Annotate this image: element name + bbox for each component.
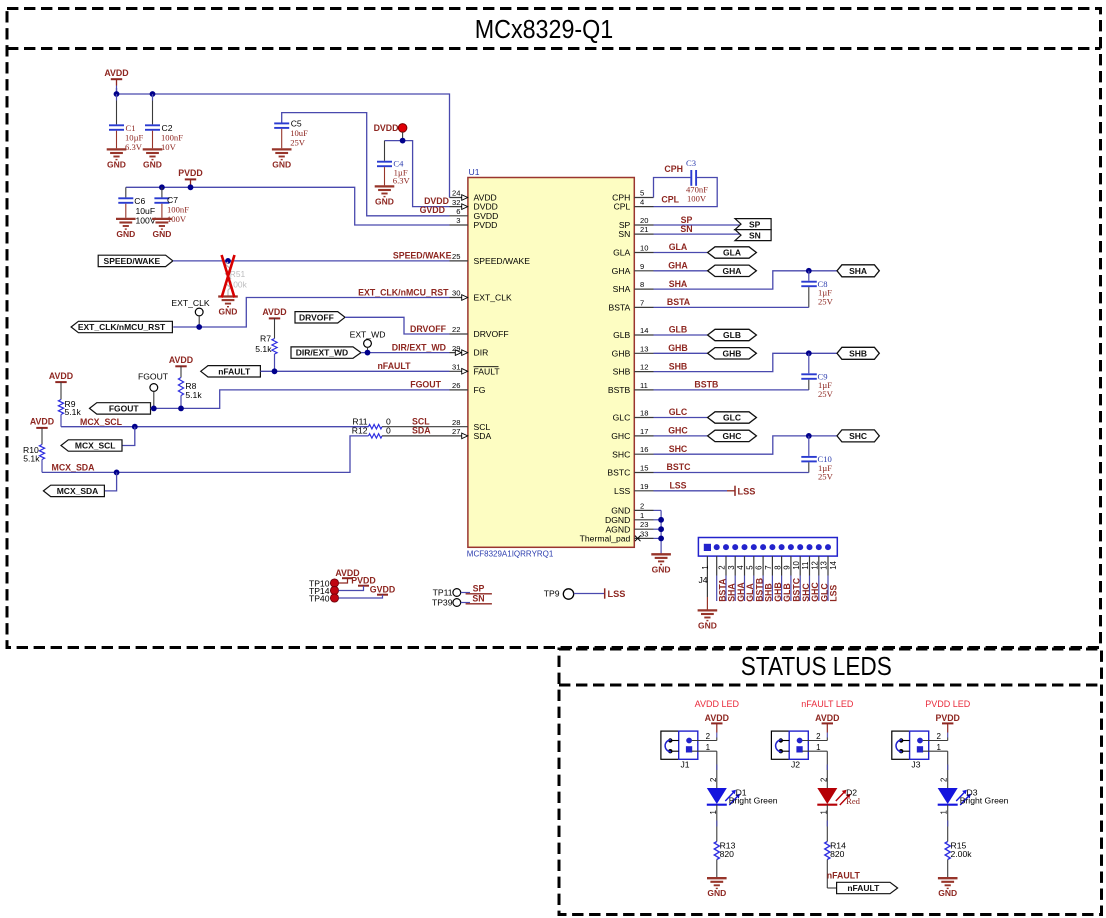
svg-text:17: 17 bbox=[640, 427, 648, 436]
svg-text:CPL: CPL bbox=[661, 194, 679, 204]
svg-text:16: 16 bbox=[640, 445, 648, 454]
svg-text:SHC: SHC bbox=[849, 431, 867, 441]
svg-text:MCx8329-Q1: MCx8329-Q1 bbox=[475, 16, 614, 44]
svg-text:1: 1 bbox=[701, 565, 710, 569]
svg-text:PVDD: PVDD bbox=[474, 220, 498, 230]
svg-text:GVDD: GVDD bbox=[370, 585, 395, 595]
svg-text:R51: R51 bbox=[230, 269, 246, 279]
U1 pin 13 GHB bbox=[634, 352, 653, 354]
svg-text:DRVOFF: DRVOFF bbox=[410, 324, 447, 334]
svg-text:7: 7 bbox=[764, 565, 773, 569]
ground (C1) bbox=[107, 149, 127, 159]
wire D2 cathode bbox=[826, 805, 828, 842]
svg-text:GHC: GHC bbox=[723, 431, 742, 441]
svg-text:GND: GND bbox=[272, 159, 291, 169]
svg-text:9: 9 bbox=[783, 565, 792, 569]
sheet border STATUS LEDS bbox=[559, 649, 1102, 915]
svg-text:0: 0 bbox=[386, 426, 391, 436]
op-amp-style IC U1 MCF8329A1IQRRYRQ1 bbox=[468, 178, 634, 548]
svg-text:nFAULT: nFAULT bbox=[218, 366, 251, 376]
svg-text:1: 1 bbox=[940, 810, 949, 814]
wire MCX_SCL / SCL bbox=[61, 426, 369, 428]
svg-text:GHB: GHB bbox=[668, 343, 688, 353]
resistor R12 0 bbox=[369, 434, 383, 438]
wire to nFAULT port bbox=[827, 887, 836, 889]
svg-text:100nF: 100nF bbox=[167, 204, 189, 214]
svg-text:DVDD: DVDD bbox=[374, 123, 399, 133]
svg-text:MCF8329A1IQRRYRQ1: MCF8329A1IQRRYRQ1 bbox=[467, 550, 554, 559]
svg-text:LSS: LSS bbox=[614, 486, 631, 496]
wire D3 cathode bbox=[947, 805, 949, 842]
capacitor C10 1uF 25V bbox=[808, 436, 810, 456]
wire GHC bbox=[654, 435, 708, 437]
U1 pin 9 GHA bbox=[634, 270, 653, 272]
wire to MCX_SDA port bbox=[104, 472, 116, 491]
resistor R10 5.1k bbox=[41, 428, 43, 445]
J4 pin 4 wire bbox=[734, 556, 736, 575]
svg-text:GHC: GHC bbox=[611, 431, 630, 441]
port SP bbox=[735, 219, 771, 230]
U1 pin 20 SP bbox=[634, 224, 653, 226]
svg-text:6: 6 bbox=[755, 565, 764, 569]
U1 pin 7 BSTA bbox=[634, 306, 653, 308]
wire BSTC bbox=[654, 472, 809, 474]
svg-text:9: 9 bbox=[640, 262, 644, 271]
svg-text:25V: 25V bbox=[290, 138, 306, 148]
svg-text:EXT_CLK: EXT_CLK bbox=[474, 293, 512, 303]
svg-text:Bright Green: Bright Green bbox=[960, 796, 1009, 806]
svg-text:22: 22 bbox=[452, 325, 460, 334]
svg-text:STATUS LEDS: STATUS LEDS bbox=[741, 653, 892, 681]
svg-text:1: 1 bbox=[640, 511, 644, 520]
svg-text:GND: GND bbox=[375, 196, 394, 206]
svg-text:SN: SN bbox=[472, 594, 484, 604]
svg-text:SN: SN bbox=[749, 230, 761, 240]
svg-text:MCX_SDA: MCX_SDA bbox=[57, 486, 99, 496]
svg-text:11: 11 bbox=[640, 381, 648, 390]
svg-text:5.1k: 5.1k bbox=[255, 344, 272, 354]
U1 pin 10 GLA bbox=[634, 252, 653, 254]
capacitor C6 10uF 100V bbox=[125, 187, 127, 197]
capacitor C2 100nF 10V bbox=[152, 94, 154, 101]
J4 pin 9 wire bbox=[781, 556, 783, 575]
svg-text:MCX_SDA: MCX_SDA bbox=[52, 463, 96, 473]
U1 pin 15 BSTC bbox=[634, 472, 653, 474]
svg-text:AVDD: AVDD bbox=[815, 713, 839, 723]
connector J3 header+jumper bbox=[892, 731, 910, 759]
svg-text:Bright Green: Bright Green bbox=[729, 796, 778, 806]
svg-text:1: 1 bbox=[819, 810, 828, 814]
svg-text:nFAULT: nFAULT bbox=[847, 883, 880, 893]
svg-text:6.3V: 6.3V bbox=[125, 142, 143, 152]
U1 pin 29 DIR bbox=[450, 352, 468, 354]
wire D1 cathode bbox=[716, 805, 718, 842]
svg-text:2: 2 bbox=[640, 501, 644, 510]
svg-text:SHA: SHA bbox=[613, 284, 631, 294]
svg-text:FG: FG bbox=[474, 385, 486, 395]
LED D3 Bright Green bbox=[938, 788, 958, 804]
wire SPEED/WAKE bbox=[173, 260, 450, 262]
svg-text:AVDD: AVDD bbox=[262, 307, 286, 317]
capacitor C8 1uF 25V bbox=[808, 271, 810, 281]
svg-text:AVDD: AVDD bbox=[30, 417, 54, 427]
wire SHB bbox=[654, 353, 838, 371]
svg-text:C1: C1 bbox=[126, 123, 136, 133]
svg-text:GND: GND bbox=[107, 159, 126, 169]
U1 pin 18 GLC bbox=[634, 417, 653, 419]
svg-text:13: 13 bbox=[640, 344, 648, 353]
svg-text:J4: J4 bbox=[699, 575, 708, 585]
wire DVDD to C4 and pin 32 bbox=[385, 141, 450, 207]
svg-text:15: 15 bbox=[640, 464, 648, 473]
svg-text:GHA: GHA bbox=[668, 261, 688, 271]
svg-text:U1: U1 bbox=[469, 167, 480, 177]
U1 pin 33 Thermal_pad bbox=[634, 537, 653, 539]
U1 pin 3 PVDD bbox=[450, 224, 468, 226]
wire BSTB bbox=[654, 389, 809, 391]
svg-text:30: 30 bbox=[452, 289, 460, 298]
svg-text:10uF: 10uF bbox=[136, 206, 156, 216]
svg-text:J3: J3 bbox=[911, 759, 920, 769]
port DRVOFF bbox=[295, 312, 345, 323]
svg-text:nFAULT LED: nFAULT LED bbox=[801, 699, 854, 709]
port GLC bbox=[708, 412, 757, 423]
resistor R13 820 bbox=[714, 842, 719, 860]
J4 pin 7 wire bbox=[762, 556, 764, 575]
svg-text:BSTA: BSTA bbox=[608, 303, 630, 313]
svg-text:10uF: 10uF bbox=[290, 128, 308, 138]
U1 pin 8 SHA bbox=[634, 288, 653, 290]
svg-text:MCX_SCL: MCX_SCL bbox=[80, 417, 123, 427]
svg-text:SP: SP bbox=[749, 219, 761, 229]
svg-text:Thermal_pad: Thermal_pad bbox=[580, 534, 631, 544]
svg-text:2: 2 bbox=[718, 565, 727, 569]
svg-text:GLC: GLC bbox=[669, 407, 688, 417]
port FGOUT bbox=[90, 403, 151, 414]
svg-text:100V: 100V bbox=[687, 193, 707, 203]
svg-text:12: 12 bbox=[640, 363, 648, 372]
svg-text:LSS: LSS bbox=[608, 589, 626, 599]
svg-text:BSTB: BSTB bbox=[694, 380, 718, 390]
svg-text:AVDD: AVDD bbox=[169, 355, 193, 365]
svg-text:14: 14 bbox=[829, 560, 838, 569]
svg-text:TP40: TP40 bbox=[309, 594, 330, 604]
U1 pin 19 LSS bbox=[634, 490, 653, 492]
port SHB bbox=[837, 347, 879, 359]
ground (C7) bbox=[152, 219, 172, 229]
svg-text:5.1k: 5.1k bbox=[23, 453, 40, 463]
svg-text:21: 21 bbox=[640, 225, 648, 234]
svg-text:GHB: GHB bbox=[612, 348, 631, 358]
wire TP11 SP bbox=[461, 592, 470, 594]
svg-text:AVDD LED: AVDD LED bbox=[695, 699, 740, 709]
U1 pin 32 DVDD bbox=[450, 206, 468, 208]
svg-text:6.3V: 6.3V bbox=[393, 176, 411, 186]
wire SP bbox=[654, 224, 742, 226]
U1 pin 26 FG bbox=[450, 389, 468, 391]
svg-text:1: 1 bbox=[937, 743, 942, 752]
svg-text:11: 11 bbox=[801, 562, 810, 570]
wire GHB bbox=[654, 352, 708, 354]
resistor R51 100k (DNP) bbox=[225, 262, 230, 290]
J4 pin 12 wire bbox=[809, 556, 811, 575]
svg-text:EXT_CLK/nMCU_RST: EXT_CLK/nMCU_RST bbox=[358, 287, 449, 297]
wire MCX_SDA / SDA bbox=[42, 436, 369, 473]
U1 pin 2 GND bbox=[634, 509, 653, 511]
svg-text:820: 820 bbox=[830, 849, 845, 859]
svg-text:PVDD: PVDD bbox=[178, 168, 202, 178]
wire nFAULT bbox=[260, 370, 449, 372]
svg-text:GLB: GLB bbox=[613, 330, 630, 340]
svg-text:BSTC: BSTC bbox=[607, 468, 630, 478]
connector J2 header+jumper bbox=[771, 731, 789, 759]
J4 pin 10 wire bbox=[790, 556, 792, 575]
U1 pin 21 SN bbox=[634, 233, 653, 235]
svg-text:7: 7 bbox=[640, 298, 644, 307]
svg-text:C2: C2 bbox=[162, 123, 173, 133]
svg-text:2.00k: 2.00k bbox=[951, 849, 973, 859]
resistor R9 5.1k bbox=[60, 382, 62, 400]
svg-text:GND: GND bbox=[152, 229, 171, 239]
ground bbox=[707, 878, 727, 888]
svg-text:J2: J2 bbox=[791, 759, 800, 769]
svg-text:2: 2 bbox=[937, 732, 942, 741]
svg-text:FGOUT: FGOUT bbox=[138, 371, 169, 381]
wire AVDD rail bbox=[116, 88, 118, 94]
svg-text:12: 12 bbox=[810, 561, 819, 570]
wire BSTA bbox=[654, 306, 809, 308]
wire D2 anode bbox=[826, 751, 828, 788]
resistor R15 2.00k bbox=[945, 842, 950, 860]
U1 pin 12 SHB bbox=[634, 371, 653, 373]
svg-text:8: 8 bbox=[773, 565, 782, 569]
port GHB bbox=[708, 348, 757, 359]
U1 pin 5 CPH bbox=[634, 197, 653, 199]
wire DIR/EXT_WD bbox=[361, 352, 450, 354]
svg-text:C6: C6 bbox=[134, 196, 145, 206]
svg-text:TP9: TP9 bbox=[544, 589, 560, 599]
capacitor C4 1uF 6.3V bbox=[384, 141, 386, 161]
ground (U1) bbox=[651, 554, 671, 564]
J4 pin 14 wire bbox=[827, 556, 829, 575]
svg-text:SHB: SHB bbox=[613, 367, 631, 377]
ground (C2) bbox=[143, 149, 163, 159]
wire FGOUT to FG pin bbox=[151, 390, 450, 409]
svg-text:10: 10 bbox=[792, 560, 801, 569]
U1 pin 28 SCL bbox=[450, 426, 468, 428]
wire GND/DGND/AGND/Thermal_pad bbox=[654, 509, 662, 511]
svg-text:8: 8 bbox=[640, 280, 644, 289]
svg-text:32: 32 bbox=[452, 198, 460, 207]
svg-text:SN: SN bbox=[618, 229, 630, 239]
svg-text:GLC: GLC bbox=[613, 413, 631, 423]
svg-text:EXT_WD: EXT_WD bbox=[350, 329, 386, 339]
U1 pin 4 CPL bbox=[634, 206, 653, 208]
wire GLB bbox=[654, 334, 708, 336]
svg-text:2: 2 bbox=[819, 778, 828, 782]
capacitor C3 470nF 100V bbox=[690, 170, 692, 186]
svg-text:SP: SP bbox=[473, 584, 485, 594]
svg-text:10V: 10V bbox=[161, 142, 177, 152]
svg-text:26: 26 bbox=[452, 381, 460, 390]
svg-text:SPEED/WAKE: SPEED/WAKE bbox=[104, 256, 161, 266]
svg-text:GND: GND bbox=[698, 620, 717, 630]
svg-text:SPEED/WAKE: SPEED/WAKE bbox=[474, 256, 531, 266]
svg-text:6: 6 bbox=[456, 207, 460, 216]
J4 pin 13 wire bbox=[818, 556, 820, 575]
svg-text:GND: GND bbox=[116, 229, 135, 239]
svg-text:J1: J1 bbox=[681, 759, 690, 769]
U1 thermal pad pin glyph bbox=[635, 536, 641, 542]
port nFAULT (status) bbox=[837, 882, 898, 893]
svg-text:R12: R12 bbox=[352, 426, 368, 436]
wire LSS bbox=[654, 490, 728, 492]
svg-text:100V: 100V bbox=[136, 215, 156, 225]
resistor R8 5.1k bbox=[180, 366, 182, 378]
J4 pin 2 wire bbox=[716, 556, 718, 575]
wire EXT_CLK/nMCU_RST bbox=[173, 298, 449, 328]
svg-text:FAULT: FAULT bbox=[474, 366, 501, 376]
J4 pin 3 wire bbox=[725, 556, 727, 575]
svg-text:27: 27 bbox=[452, 427, 460, 436]
svg-text:DRVOFF: DRVOFF bbox=[474, 329, 509, 339]
wire SHA bbox=[654, 271, 838, 289]
U1 pin 27 SDA bbox=[450, 435, 468, 437]
ground (C5) bbox=[272, 149, 292, 159]
svg-text:5: 5 bbox=[745, 565, 754, 570]
svg-text:GND: GND bbox=[219, 307, 238, 317]
wire TP9 LSS bbox=[574, 593, 605, 595]
svg-text:C3: C3 bbox=[686, 158, 696, 168]
svg-text:25V: 25V bbox=[818, 389, 834, 399]
resistor R14 820 bbox=[825, 842, 830, 860]
svg-text:SDA: SDA bbox=[412, 426, 431, 436]
svg-text:GLB: GLB bbox=[669, 325, 688, 335]
LED D2 Red bbox=[817, 788, 837, 804]
svg-text:4: 4 bbox=[736, 565, 745, 570]
svg-text:AVDD: AVDD bbox=[104, 68, 128, 78]
svg-text:FGOUT: FGOUT bbox=[109, 404, 140, 414]
svg-text:1: 1 bbox=[816, 743, 821, 752]
LED D1 Bright Green bbox=[707, 788, 727, 804]
svg-text:GLB: GLB bbox=[723, 330, 741, 340]
svg-text:19: 19 bbox=[640, 482, 648, 491]
port MCX_SDA bbox=[43, 485, 104, 496]
wire DRVOFF bbox=[345, 317, 450, 334]
wire C5 to GVDD pin 6 bbox=[282, 113, 450, 216]
U1 pin 22 DRVOFF bbox=[450, 333, 468, 335]
svg-text:PVDD: PVDD bbox=[935, 713, 959, 723]
wire TP39 SN bbox=[461, 602, 470, 604]
DNP cross R51 bbox=[222, 255, 235, 298]
svg-text:TP11: TP11 bbox=[433, 588, 453, 598]
svg-text:1: 1 bbox=[709, 810, 718, 814]
svg-text:GHB: GHB bbox=[723, 348, 742, 358]
svg-text:820: 820 bbox=[720, 849, 735, 859]
svg-text:BSTB: BSTB bbox=[608, 385, 631, 395]
svg-text:31: 31 bbox=[452, 363, 460, 372]
wire to MCX_SCL port bbox=[122, 427, 135, 446]
svg-text:13: 13 bbox=[820, 561, 829, 570]
svg-text:DIR/EXT_WD: DIR/EXT_WD bbox=[392, 342, 446, 352]
U1 pin 1 DGND bbox=[634, 519, 653, 521]
U1 pin 16 SHC bbox=[634, 453, 653, 455]
J4 pin 11 wire bbox=[799, 556, 801, 575]
svg-text:SHA: SHA bbox=[669, 279, 688, 289]
svg-text:2: 2 bbox=[940, 778, 949, 782]
svg-text:GND: GND bbox=[707, 888, 726, 898]
wire GLA bbox=[654, 252, 708, 254]
svg-text:MCX_SCL: MCX_SCL bbox=[75, 441, 116, 451]
svg-text:SHC: SHC bbox=[669, 444, 688, 454]
ground (C6) bbox=[116, 219, 136, 229]
wire CPH bbox=[654, 178, 691, 198]
svg-text:1: 1 bbox=[706, 743, 711, 752]
svg-text:DIR: DIR bbox=[474, 348, 489, 358]
svg-text:10: 10 bbox=[640, 244, 648, 253]
svg-text:C7: C7 bbox=[167, 195, 178, 205]
svg-text:18: 18 bbox=[640, 409, 648, 418]
port DIR/EXT_WD bbox=[291, 347, 361, 358]
svg-text:SHB: SHB bbox=[849, 348, 867, 358]
svg-text:SDA: SDA bbox=[474, 431, 492, 441]
svg-text:AVDD: AVDD bbox=[705, 713, 729, 723]
J4 pin 6 wire bbox=[753, 556, 755, 575]
U1 pin 6 GVDD bbox=[450, 215, 468, 217]
ground (J4) bbox=[698, 610, 718, 620]
port GLA bbox=[708, 247, 757, 258]
svg-text:SHA: SHA bbox=[849, 266, 867, 276]
svg-text:SHC: SHC bbox=[612, 449, 630, 459]
U1 pin 31 FAULT bbox=[450, 370, 468, 372]
svg-text:EXT_CLK: EXT_CLK bbox=[171, 298, 209, 308]
J4 pin 8 wire bbox=[771, 556, 773, 575]
U1 pin 14 GLB bbox=[634, 334, 653, 336]
U1 pin 24 AVDD bbox=[450, 197, 468, 199]
J4 pin 5 wire bbox=[744, 556, 746, 575]
ground (R51) bbox=[218, 297, 238, 307]
svg-text:DIR/EXT_WD: DIR/EXT_WD bbox=[296, 348, 348, 358]
svg-text:GLA: GLA bbox=[613, 248, 630, 258]
port GHC bbox=[708, 430, 757, 441]
wire D1 anode bbox=[716, 751, 718, 788]
svg-text:5.1k: 5.1k bbox=[65, 407, 82, 417]
svg-text:CPH: CPH bbox=[664, 164, 683, 174]
svg-text:GND: GND bbox=[652, 564, 671, 574]
svg-text:GLA: GLA bbox=[723, 248, 741, 258]
wire SHC bbox=[654, 436, 838, 454]
port SHA bbox=[837, 265, 879, 277]
U1 pin 30 EXT_CLK bbox=[450, 297, 468, 299]
svg-text:AVDD: AVDD bbox=[49, 371, 73, 381]
svg-text:SHB: SHB bbox=[669, 361, 688, 371]
svg-text:25V: 25V bbox=[818, 472, 834, 482]
svg-text:Red: Red bbox=[846, 796, 861, 806]
svg-text:GND: GND bbox=[143, 159, 162, 169]
svg-text:3: 3 bbox=[727, 565, 736, 569]
svg-text:28: 28 bbox=[452, 418, 460, 427]
U1 pin 25 SPEED/WAKE bbox=[450, 260, 468, 262]
capacitor C7 100nF 100V bbox=[161, 187, 163, 197]
svg-text:GND: GND bbox=[938, 888, 957, 898]
svg-text:BSTA: BSTA bbox=[667, 297, 691, 307]
svg-text:DRVOFF: DRVOFF bbox=[299, 312, 334, 322]
svg-text:33: 33 bbox=[640, 529, 648, 538]
svg-text:25: 25 bbox=[452, 252, 460, 261]
svg-text:TP39: TP39 bbox=[432, 598, 453, 608]
svg-text:GHA: GHA bbox=[612, 266, 631, 276]
svg-text:2: 2 bbox=[709, 778, 718, 782]
